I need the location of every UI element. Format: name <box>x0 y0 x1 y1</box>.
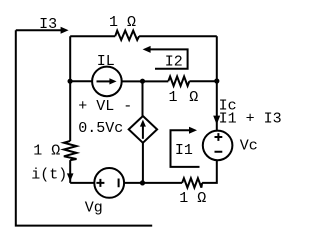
dependent source 0.5Vc (diamond) <box>129 116 157 143</box>
current source IL <box>92 67 122 97</box>
svg-text:Vg: Vg <box>85 200 103 217</box>
node junction left <box>68 79 73 84</box>
mesh arrow I2 <box>150 49 187 68</box>
node junction center <box>140 79 145 84</box>
wire center vertical <box>142 81 144 116</box>
wire outer loop (left + bottom) <box>16 30 152 225</box>
wire Vg right to junction <box>124 182 142 184</box>
resistor R1 1Ω (top) <box>115 31 139 40</box>
mesh arrow I1 <box>171 130 200 167</box>
wire IL row left <box>70 80 92 82</box>
wire right vertical top <box>216 36 218 81</box>
svg-text:I1 + I3: I1 + I3 <box>219 111 282 128</box>
svg-text:1 Ω: 1 Ω <box>179 190 206 207</box>
current arrow i(t) <box>67 173 74 181</box>
wire diamond bottom <box>142 143 144 183</box>
wire IL row right <box>122 80 169 82</box>
voltage source Vc <box>203 131 233 161</box>
svg-text:Vc: Vc <box>240 137 258 154</box>
svg-text:i(t): i(t) <box>31 167 67 184</box>
svg-text:IL: IL <box>97 53 115 70</box>
current arrow Ic <box>213 116 220 125</box>
svg-text:I3: I3 <box>39 16 57 33</box>
resistor R3 1Ω (middle) <box>168 77 189 86</box>
svg-text:I2: I2 <box>165 54 183 71</box>
resistor R2 1Ω (left vertical) <box>64 141 77 160</box>
resistor R4 1Ω (bottom right) <box>182 178 202 187</box>
svg-text:1: 1 <box>169 89 178 106</box>
svg-text:I1: I1 <box>175 142 193 159</box>
wire Vg left <box>70 182 94 184</box>
wire middle row right <box>189 80 216 82</box>
svg-text:1 Ω: 1 Ω <box>109 14 136 31</box>
svg-text:Ω: Ω <box>189 89 198 106</box>
voltage source Vg <box>94 168 124 198</box>
node junction bottom center <box>140 180 145 185</box>
wire bottom right row <box>143 160 217 183</box>
current arrow I3 <box>16 29 61 31</box>
wire left vertical branch <box>69 36 71 183</box>
wire right vertical to Vc <box>216 81 218 131</box>
svg-text:1 Ω: 1 Ω <box>33 142 60 159</box>
node junction right <box>214 78 219 83</box>
wire top <box>70 35 217 37</box>
svg-text:0.5Vc: 0.5Vc <box>78 120 123 137</box>
svg-text:+ VL -: + VL - <box>78 98 132 115</box>
